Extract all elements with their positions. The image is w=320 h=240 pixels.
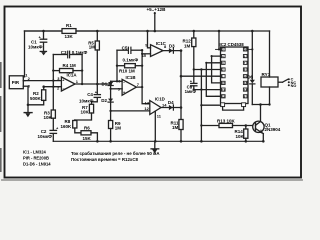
svg-text:10K: 10K [236,134,245,139]
svg-text:R13 10K: R13 10K [217,118,236,123]
svg-text:NO: NO [291,84,297,88]
pin 3 [23,85,28,87]
svg-text:+: + [123,90,125,94]
svg-text:+: + [62,79,64,83]
resistor R7 10K [75,104,94,120]
diode D2 [101,98,113,112]
ground symbol on bus [150,141,159,153]
svg-text:PIR - RE200B: PIR - RE200B [23,156,49,161]
label +5..+12V [147,7,167,12]
wire C8 to IC2 pin row7 [194,89,221,91]
op-amp IC1B [118,75,140,95]
svg-text:Ток срабатывания реле - не бол: Ток срабатывания реле - не более 50 мА [71,151,160,156]
wire IC1C pin10 [142,53,150,55]
wire rail to D6 column [251,31,253,80]
resistor R2 500K [28,85,46,104]
wire to R13 [201,125,219,127]
resistor R11 1M [171,120,184,131]
svg-text:13: 13 [244,81,248,85]
svg-text:–: – [123,81,125,85]
capacitor C3 [53,50,87,58]
svg-text:IC1B: IC1B [126,75,136,80]
svg-text:C3: C3 [61,50,67,55]
wire PIR pin3 down [27,86,29,105]
wire IC1A pin2 input [44,86,62,88]
diode D1 [102,81,114,98]
IC2 pin numbers [222,48,247,99]
resistor R10 1M feedback [117,64,142,74]
wire trigger node A to IC2 pin row5 [181,75,221,77]
wire IC1B output to IC1D pin13 [136,87,149,104]
op-amp IC1A [57,72,79,91]
resistor R6 15K [81,125,97,141]
capacitor C1 [28,30,47,51]
resistor R1 [25,23,98,39]
ground below C1 [40,51,48,56]
diode D6 [247,75,255,105]
svg-text:–: – [63,87,65,91]
wire IC1A output [75,83,111,85]
svg-text:R10 1М: R10 1М [119,68,135,73]
wire to IC2 bottom left pin [201,104,220,106]
svg-text:Постоянная времени = R12хС8: Постоянная времени = R12хС8 [71,157,139,162]
pin 1 [23,76,24,78]
wire IC1B pin5 [111,88,123,90]
op-amp IC1C [142,41,167,58]
wire supply drop [154,13,156,31]
svg-text:C5: C5 [122,45,128,50]
scan artifact left edge [0,62,2,172]
capacitor C5 [117,45,142,62]
IC2 pin rows [216,48,253,98]
svg-text:10мкФ: 10мкФ [79,99,94,104]
resistor R12 1M timing [183,30,196,70]
relay contacts C NC NO [279,78,297,88]
svg-text:11: 11 [222,88,225,92]
svg-text:R1: R1 [66,23,72,28]
pin 2 [23,80,25,82]
svg-text:D2: D2 [101,98,107,103]
capacitor C2 [38,125,60,141]
svg-text:1М: 1М [184,43,191,48]
svg-text:12: 12 [144,106,149,111]
resistor R14 10K [235,126,248,142]
wire feedback loop left [52,55,54,111]
svg-text:R6: R6 [84,125,90,130]
svg-text:PIR: PIR [12,80,20,85]
svg-text:IC1 - LM324: IC1 - LM324 [23,150,46,155]
svg-text:10мкФ: 10мкФ [28,45,43,50]
wire IC2 bottom pins join [223,107,244,111]
wire trigger column x180 [180,51,182,142]
wire timing node to IC2 pin row4 [194,69,221,71]
svg-text:1М: 1М [115,126,122,131]
wire IC1D pin11 to bus [154,111,156,141]
resistor R8 160K [61,119,82,133]
svg-text:10K: 10K [44,115,53,120]
capacitor C8 timing [185,70,197,95]
svg-text:+5..+12В: +5..+12В [147,7,167,12]
wire timing node down to bus [200,70,202,142]
svg-text:D3: D3 [169,43,175,48]
PIR sensor [9,76,23,89]
border frame [5,7,302,178]
wire PIR pin2 to IC1A pin3 [23,80,61,82]
op-amp IC1D [144,96,167,118]
supply entry node [154,12,156,14]
svg-text:15: 15 [222,81,226,85]
resistor R3 10K [44,110,56,130]
resistor R9 1M [109,111,122,141]
svg-text:0.1мкФ: 0.1мкФ [123,58,139,63]
wire feedback left IC1B [116,50,118,81]
wire IC1C pin9 from rail [148,31,151,48]
svg-text:D1-D6 - 1N914: D1-D6 - 1N914 [23,162,51,167]
svg-text:15K: 15K [83,136,92,141]
capacitor C4 [79,84,100,104]
svg-text:160K: 160K [61,124,73,129]
svg-text:R4 1M: R4 1M [63,63,77,68]
note text [71,151,160,162]
svg-text:D1: D1 [102,81,108,86]
ground bus [53,140,263,142]
svg-text:IC1D: IC1D [155,96,165,101]
wire collector node [252,104,269,106]
svg-text:13K: 13K [65,34,74,39]
IC2 CD4538 [220,42,249,103]
resistor R5 1M (from rail down) [88,30,99,84]
svg-text:C4: C4 [87,92,93,97]
svg-text:D6: D6 [247,75,253,80]
diode D4 [161,100,181,110]
resistor R4 1M feedback [52,63,83,73]
resistor R13 10K [217,118,256,127]
wire feedback right IC1B [141,50,143,87]
wire IC2 row3 to row8 [206,63,220,97]
svg-text:2N3904: 2N3904 [265,127,281,132]
IC2 bottom pins [221,103,246,107]
wire IC2 row2 to row6 [212,56,221,83]
svg-text:13: 13 [145,100,150,105]
wire IC1D pin12 [111,110,150,112]
wire IC1B pin6 [111,80,123,82]
bottom scan smudge [2,179,302,181]
wire rail to IC2 pin [218,31,220,49]
svg-text:IC2 CD4538: IC2 CD4538 [220,42,245,47]
wire top supply rail [25,30,270,32]
relay RY1 [261,31,278,105]
wire feedback loop right [81,55,83,85]
svg-text:10мкФ: 10мкФ [38,134,53,139]
svg-text:12: 12 [222,95,226,99]
diode D3 [163,43,181,53]
svg-text:0.1мкФ: 0.1мкФ [72,50,88,55]
ground below PIR pin3 [24,105,33,117]
svg-text:10K: 10K [81,110,90,115]
svg-text:D4: D4 [168,100,174,105]
legend text [23,150,51,167]
wire PIR pin1 riser [24,31,26,77]
svg-text:500K: 500K [30,96,42,101]
svg-text:1M: 1M [89,44,95,49]
transistor Q1 2N3904 [253,121,281,141]
svg-text:16: 16 [244,48,248,52]
svg-text:1М: 1М [172,125,179,130]
svg-text:14: 14 [244,88,248,92]
